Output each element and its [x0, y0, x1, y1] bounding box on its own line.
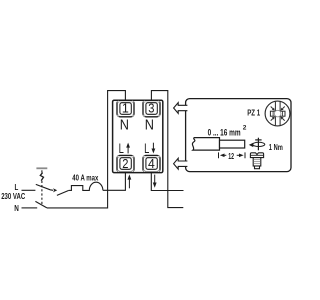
- wire N from source to switch S1 pole N: [22, 207, 38, 209]
- pozidriv screw head icon: [265, 101, 290, 126]
- wire N from switch S1 to terminal 1: [47, 91, 126, 208]
- cable with stripped end: [192, 138, 244, 151]
- terminal 2 (L input) with pin number 2: [117, 155, 134, 172]
- current direction arrow down beside terminal 4 wire: [154, 175, 156, 184]
- wire L from fuse F1 to terminal 2: [103, 173, 126, 191]
- device U1 body outline: [113, 100, 163, 172]
- terminal 1 (N input) with pin number 1: [117, 100, 134, 116]
- switch S1 actuator bar: [36, 167, 47, 169]
- svg-text:2: 2: [122, 157, 128, 171]
- switch S1 pole N blade: [35, 201, 47, 208]
- open arrow pointing to device (top): [174, 103, 188, 114]
- fuse F1 overcurrent element (bump and arc): [71, 182, 103, 190]
- switch S1 pole L fixed contact lead: [57, 190, 69, 195]
- terminal 3 (N output) with pin number 3: [143, 100, 160, 116]
- switch S1 mechanical link (dashed): [40, 170, 43, 204]
- svg-text:L: L: [144, 141, 150, 156]
- svg-text:PZ 1: PZ 1: [247, 107, 260, 117]
- terminal 4 (L output) with pin number 4: [143, 155, 160, 172]
- svg-text:N: N: [145, 118, 154, 134]
- svg-text:40 A max: 40 A max: [72, 173, 98, 182]
- svg-text:1: 1: [122, 102, 129, 116]
- current direction arrow up beside terminal 2 wire: [128, 179, 130, 188]
- svg-text:L: L: [119, 141, 125, 156]
- wire L load side from terminal 4: [151, 173, 183, 191]
- svg-text:N: N: [120, 118, 129, 134]
- svg-text:12: 12: [228, 152, 234, 161]
- switch S1 pole L blade: [36, 184, 53, 190]
- wire L between switch S1 and fuse F1: [69, 189, 71, 191]
- svg-text:3: 3: [148, 102, 154, 116]
- svg-text:1 Nm: 1 Nm: [269, 142, 283, 152]
- svg-text:230 VAC: 230 VAC: [1, 191, 25, 201]
- torque screwdriver symbol: [253, 138, 265, 151]
- info panel box: [186, 99, 291, 172]
- svg-text:4: 4: [148, 157, 155, 171]
- svg-text:2: 2: [243, 124, 247, 131]
- wire N load side from terminal 3: [151, 91, 183, 208]
- svg-text:N: N: [14, 204, 19, 213]
- terminal screw icon: [250, 153, 263, 169]
- switch S1 pole L arrowhead: [53, 188, 57, 192]
- switch S1 release zigzag on linkage: [40, 173, 43, 181]
- strip length dimension 12 mm: [219, 152, 246, 158]
- open arrow pointing to device (bottom): [174, 158, 188, 169]
- wire L from source to switch S1 pole L: [22, 189, 36, 191]
